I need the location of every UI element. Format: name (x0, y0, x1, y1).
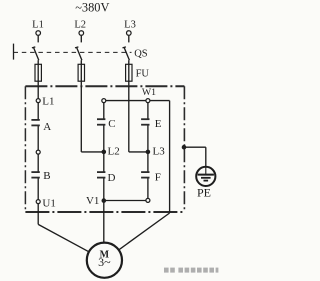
wire L2 feed horizontal to terminal L2 (81, 151, 104, 153)
switch QS blade pole 3 (123, 47, 130, 60)
terminal box dash-dot border right (183, 86, 185, 212)
wire terminal L2 to link D (103, 152, 105, 172)
wire col2 top stud to link C (103, 103, 105, 120)
stud circle U1 (36, 200, 40, 204)
svg-text:W1: W1 (142, 87, 156, 98)
svg-text:B: B (43, 170, 50, 182)
svg-text:L2: L2 (108, 146, 120, 158)
link F bars (141, 171, 149, 178)
wire terminal L3 to link F (147, 152, 149, 172)
svg-text:L3: L3 (124, 19, 136, 30)
switch QS blade pole 1 (32, 47, 39, 60)
wire link B to terminal U1 (37, 178, 39, 200)
switch QS blade pole 2 (75, 47, 82, 60)
link E bars (141, 118, 149, 125)
svg-text:~380V: ~380V (75, 1, 109, 15)
motor lead W diagonal (119, 213, 170, 250)
junction dot terminal L3 (146, 150, 151, 155)
svg-text:L1: L1 (32, 19, 44, 30)
svg-text:V1: V1 (86, 195, 99, 207)
wire W1 to right riser (150, 100, 170, 102)
wire link A to middle stud (37, 125, 39, 150)
junction dot PE on box edge (182, 145, 187, 150)
svg-text:U1: U1 (42, 198, 55, 210)
svg-text:F: F (155, 172, 161, 184)
wire link C to terminal L2 (103, 125, 105, 152)
wire L2 into box down (80, 86, 82, 152)
wire L3 feed horizontal to terminal L3 (129, 151, 148, 153)
wire L1 into box to terminal L1 (37, 86, 39, 98)
wire bottom stud row V1 to col3 (104, 200, 148, 202)
wire PE branch down to earth (205, 147, 207, 167)
svg-text:E: E (155, 118, 162, 130)
wire L3 into box down (128, 86, 130, 152)
link A bars (31, 119, 39, 126)
wire L1 stub below terminal (37, 36, 39, 43)
terminal circle L1 top (36, 31, 41, 36)
wire link D to terminal V1 (103, 178, 105, 201)
stud circle col2 top (102, 99, 106, 103)
wire L3 stub below terminal (128, 36, 130, 43)
stud circle col1 middle (36, 150, 40, 154)
wire L2 stub below terminal (80, 36, 82, 43)
wire blade to fuse L1 (37, 60, 39, 86)
terminal circle L3 top (127, 31, 132, 36)
wire middle stud to link B (37, 154, 39, 172)
wire right riser down (169, 101, 171, 213)
svg-text:PE: PE (197, 186, 211, 200)
wire V1 down to motor (103, 201, 105, 243)
stud circle col3 bottom (146, 198, 150, 202)
svg-text:QS: QS (134, 48, 148, 59)
earth electrode circle PE (196, 167, 215, 186)
link D bars (97, 171, 105, 178)
terminal circle L2 top (79, 31, 84, 36)
wire U1 down through box edge (37, 204, 39, 225)
QS linkage dashed line (14, 51, 132, 53)
wire blade to fuse L2 (80, 60, 82, 86)
svg-text:L3: L3 (153, 146, 166, 158)
wire blade to fuse L3 (128, 60, 130, 86)
QS manual operation bar (13, 44, 15, 60)
earth symbol inside circle (198, 167, 214, 181)
svg-text:FU: FU (136, 68, 150, 79)
wire W1 to link E (147, 103, 149, 120)
wire PE branch horizontal (184, 146, 206, 148)
svg-text:C: C (108, 118, 115, 130)
terminal box dash-dot border left (24, 86, 26, 212)
junction dot terminal V1 (102, 198, 107, 203)
svg-text:L2: L2 (74, 19, 86, 30)
wire link E to terminal L3 (147, 125, 149, 152)
svg-text:3~: 3~ (98, 255, 111, 269)
wire link F to bottom stud (147, 178, 149, 198)
fuse FU pole 3 (126, 64, 132, 81)
wire terminal L1 to link A (37, 103, 39, 120)
watermark gray text (164, 268, 218, 273)
link C bars (97, 118, 105, 125)
motor lead from U1 diagonal (38, 224, 89, 251)
wire top stud row col2 to W1 (104, 100, 148, 102)
fuse FU pole 2 (78, 64, 84, 81)
svg-text:D: D (108, 172, 116, 184)
junction dot terminal L2 (102, 150, 107, 155)
stud circle L1 in box (36, 99, 40, 103)
fuse FU pole 1 (35, 64, 41, 81)
terminal box dash-dot border top (25, 85, 184, 87)
svg-text:A: A (43, 121, 51, 133)
link B bars (31, 171, 39, 178)
stud circle W1 (146, 99, 150, 103)
terminal box dash-dot border bottom (25, 211, 184, 213)
svg-text:L1: L1 (42, 95, 54, 107)
motor circle M (87, 243, 122, 278)
